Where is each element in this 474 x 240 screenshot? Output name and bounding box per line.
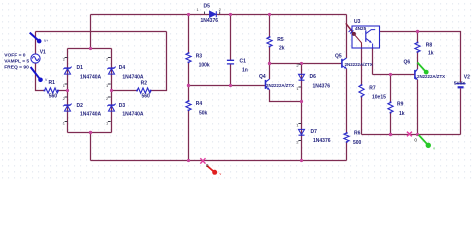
U3 LED [346,23,354,34]
transistor value labels [266,62,445,88]
wire C1 top lead [230,15,232,61]
svg-text:v: v [433,146,435,150]
wire right ground rail [362,134,461,136]
wire U3 collector to V2 [380,32,461,83]
diode D1 (zener) [63,67,71,75]
svg-text:500: 500 [353,140,362,146]
op-amp U3 optocoupler box [352,26,380,48]
wire V1 top bus [36,31,167,33]
wire R4 bottom lead [188,111,190,161]
wire R2 to corner [151,32,167,91]
ground 0 right [407,132,412,137]
svg-text:1N4376: 1N4376 [313,138,331,144]
diode D3 (zener) [107,104,115,112]
resistor R6 [344,133,349,142]
diode D5 (horizontal) [215,11,217,17]
transistor Q6 [415,69,418,80]
svg-text:R4: R4 [196,101,203,107]
wire R9 bottom lead [390,113,392,135]
wire R8 top lead [417,32,419,43]
svg-text:D6: D6 [310,74,317,80]
wire R9 top lead [390,75,392,103]
svg-text:2N2222A/ZTX: 2N2222A/ZTX [266,83,294,88]
resistor R2 (horizontal) [137,88,151,93]
U3 cathode inner lead [354,34,361,47]
svg-text:50k: 50k [199,111,208,117]
voltage probe green at Q6 collector [417,63,425,72]
wire C1 bottom lead [230,64,232,86]
resistor R7 [359,85,364,96]
svg-text:D7: D7 [311,129,318,135]
probe V+ marker at V1 top [30,33,42,44]
svg-text:R8: R8 [426,42,433,48]
wire node D to Q6 base [373,74,415,76]
wire R5 top lead [269,15,271,38]
svg-text:VAMPL = 5: VAMPL = 5 [4,59,29,65]
svg-text:R9: R9 [397,101,404,107]
wire bus corner to Q5 collector [346,15,348,59]
wire left ground rail [91,160,347,162]
wire R3 top lead [188,15,190,54]
svg-text:R7: R7 [369,85,376,91]
svg-text:0: 0 [206,163,209,168]
svg-text:5Vdc: 5Vdc [454,81,466,87]
wire R3 bottom lead [188,63,190,86]
svg-text:4N25: 4N25 [355,26,367,31]
pin number digits [63,7,299,145]
U3 phototransistor [366,30,375,48]
capacitor C1 [227,60,234,64]
wire bridge top rail [68,48,112,50]
resistor R3 [186,53,191,62]
svg-text:D1: D1 [77,65,84,71]
pin ticks [65,12,301,141]
svg-text:2: 2 [63,56,65,61]
svg-text:1: 1 [63,120,65,125]
svg-text:1k: 1k [428,50,434,56]
svg-text:1N4740A: 1N4740A [122,112,144,118]
svg-text:R1: R1 [49,80,56,86]
svg-text:1k: 1k [399,111,405,117]
svg-text:R3: R3 [196,53,203,59]
wire R4 top lead [188,86,190,102]
wire bridge riser [90,15,92,49]
svg-text:Q5: Q5 [335,54,342,60]
svg-text:2: 2 [219,7,221,12]
svg-text:1N4740A: 1N4740A [80,74,102,80]
wire bridge right column [111,49,113,133]
wire U3 emitter down [372,48,374,75]
svg-text:v: v [220,172,222,176]
svg-text:1n: 1n [242,68,248,74]
svg-text:D2: D2 [77,103,84,109]
svg-text:0: 0 [414,137,417,142]
svg-text:2: 2 [106,96,108,101]
wire R5 bottom to Q4 collector [269,47,271,80]
svg-text:1: 1 [296,123,298,128]
resistor R8 [415,43,420,53]
wire node B horizontal [189,85,266,87]
svg-text:1N4740A: 1N4740A [122,74,144,80]
svg-text:2k: 2k [279,46,285,52]
resistor R5 [267,37,272,47]
wire R7 bottom lead [361,97,363,135]
wire D6 D7 column [301,64,303,161]
svg-text:1: 1 [296,86,298,91]
wire node C horizontal [270,63,342,65]
diode D4 (zener) [107,67,115,75]
voltage probe green bottom [419,135,428,145]
resistor R1 (horizontal) [45,88,59,93]
resistor pin squares [44,36,419,143]
svg-text:Q6: Q6 [404,59,411,65]
svg-text:1: 1 [197,7,199,12]
transistor Q4 [266,79,270,90]
probe labels [44,39,435,176]
svg-text:D5: D5 [204,3,211,9]
wire Q5 emitter to R6 [346,69,348,133]
svg-text:2: 2 [296,63,298,68]
resistor R9 [388,103,393,113]
battery V2 [455,84,465,88]
transistor Q5 [342,58,347,69]
svg-text:R5: R5 [277,37,284,43]
svg-text:2: 2 [63,96,65,101]
svg-text:100k: 100k [199,63,210,69]
wire U3 cathode to R7 [361,48,363,85]
wire V2 bottom lead [460,89,462,135]
wire top bus [91,14,347,16]
svg-text:1N4376: 1N4376 [201,18,219,24]
svg-text:VOFF = 0: VOFF = 0 [4,53,26,59]
svg-text:V2: V2 [464,74,470,80]
svg-text:V1: V1 [40,50,46,56]
svg-text:560: 560 [49,94,58,100]
wire R1 to bridge [58,90,68,92]
wire bridge drop to ground rail [90,133,92,161]
wire V1 top lead [35,32,37,55]
ground 0 left [200,158,205,163]
svg-text:2N2222A/ZTX: 2N2222A/ZTX [345,62,373,67]
svg-text:2N2222A/ZTX: 2N2222A/ZTX [417,74,445,79]
svg-text:1N4376: 1N4376 [313,83,331,89]
probe V- marker at R1 [31,67,43,82]
svg-text:R6: R6 [354,131,361,137]
voltage probe red [207,166,214,172]
wire bridge bottom rail [68,132,112,134]
svg-text:1N4740A: 1N4740A [80,112,102,118]
svg-text:R2: R2 [141,81,148,87]
wire Q4 emitter to column [270,90,302,102]
svg-text:2: 2 [106,56,108,61]
SYMBOLS [31,54,40,63]
diode D2 (zener) [63,104,71,112]
wire bridge right tap to R2 [112,90,137,92]
node 0 labels [206,137,418,168]
svg-text:1: 1 [63,83,65,88]
svg-text:560: 560 [142,94,151,100]
svg-text:1: 1 [106,83,108,88]
wire Q6 emitter down [417,80,419,135]
wire R8 to Q6 collector [417,52,419,69]
svg-text:1: 1 [106,120,108,125]
wire R6 bottom lead [346,142,348,161]
wire bridge left column [67,49,69,133]
svg-text:2: 2 [296,140,298,145]
svg-text:C1: C1 [240,59,247,65]
svg-text:U3: U3 [354,19,361,25]
svg-text:V+: V+ [44,39,48,43]
diode D7 [299,129,305,135]
wire V1 bottom to R1 [36,63,45,91]
resistor R4 [186,101,191,110]
svg-text:10e15: 10e15 [372,95,386,101]
V1 sine source [31,54,40,63]
svg-text:D3: D3 [119,103,126,109]
svg-text:D4: D4 [119,65,126,71]
svg-text:Q4: Q4 [259,74,266,80]
svg-text:FREQ = 90: FREQ = 90 [4,65,29,71]
diode D6 [299,74,305,80]
